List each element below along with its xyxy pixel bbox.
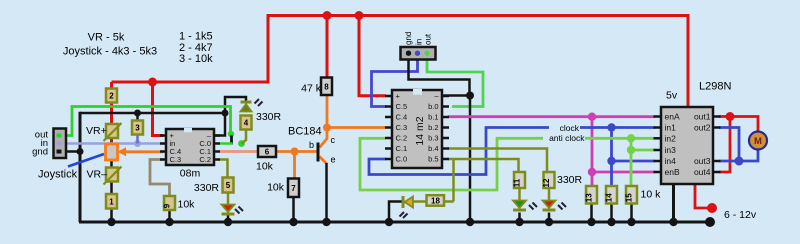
wire blue out3 to node (719, 160, 739, 163)
wire maroon stub VR+ to joystick pot (110, 136, 113, 146)
svg-text:L298N: L298N (699, 81, 731, 93)
svg-text:in2: in2 (665, 133, 677, 143)
svg-text:e: e (331, 155, 336, 165)
svg-text:in1: in1 (665, 123, 677, 133)
node bus junction x=673.5 (669, 218, 677, 226)
wire red out4 loop up to out1 node (719, 117, 730, 173)
LED D4 amber (241, 101, 252, 104)
svg-text:7: 7 (291, 184, 296, 193)
wire red L298N out1 to motor and out4 (719, 117, 758, 133)
resistor R6 10k (258, 146, 276, 157)
svg-text:5: 5 (226, 181, 231, 190)
resistor R13 10k (586, 186, 597, 204)
wire black R15 bottom to bus (630, 203, 633, 222)
resistor R10 330R horizontal (427, 195, 445, 206)
wire brown 08m C.3 to R9 (150, 160, 170, 198)
programming connector (401, 47, 436, 60)
wire red drop to 14m2 + pin (359, 16, 386, 96)
svg-text:330R: 330R (256, 111, 282, 123)
wire black stub joystick pot to VR- (110, 159, 113, 170)
wire black R9 bottom to bus (168, 209, 171, 222)
svg-text:clock: clock (560, 123, 580, 133)
svg-text:8: 8 (324, 82, 329, 91)
node black gnd junction at (470,95.5) (466, 92, 474, 100)
svg-text:c: c (331, 135, 336, 145)
wire blue to in4 pin (612, 160, 656, 163)
svg-text:out3: out3 (694, 156, 711, 166)
wiper arrow into joystick pot (124, 150, 163, 153)
wire 5v red supply rail (top) (112, 16, 689, 108)
node green junction in2 (627, 134, 635, 142)
wire black 08m minus pin up to y=113 line (214, 113, 225, 136)
node gnd junction on left rail (77, 148, 84, 155)
pin stubs 14m2 right (442, 95, 449, 98)
joystick pointer blue line (68, 154, 104, 167)
node blue junction in4 (607, 157, 615, 165)
wire magenta 14m2 b.1 to enA/enB net (448, 115, 655, 118)
svg-text:11: 11 (513, 178, 522, 187)
resistor R3 10k (132, 121, 143, 135)
node blue junction out3/motor (735, 157, 744, 166)
svg-text:18: 18 (431, 197, 440, 206)
svg-text:out4: out4 (694, 167, 711, 177)
svg-text:C.2: C.2 (199, 155, 211, 164)
svg-text:M: M (754, 136, 762, 147)
svg-text:b.4: b.4 (428, 144, 438, 153)
potentiometer VR+ (106, 124, 118, 138)
motor M1 (749, 132, 767, 150)
wire green vertical to in3 and R15 (630, 138, 633, 187)
svg-text:out1: out1 (694, 112, 711, 122)
wire black R3 top stub (136, 113, 139, 121)
node bus junction x=293.5 (289, 218, 297, 226)
node blue junction in1 (607, 123, 615, 131)
svg-text:C.4: C.4 (396, 113, 408, 122)
resistor R15 10k (626, 186, 637, 204)
wire black emitter to bus (325, 163, 328, 222)
wire black stub R1 to ground bus (110, 207, 113, 222)
wire black gnd pin to left rail (62, 150, 80, 153)
potentiometer VR- (106, 168, 118, 182)
svg-text:3: 3 (135, 124, 140, 133)
svg-text:b.3: b.3 (428, 134, 438, 143)
label clock with backing (549, 124, 580, 132)
wire orange BC184 emitter diagonal (320, 157, 328, 165)
svg-text:12: 12 (542, 178, 551, 187)
wire black bus to LED10 (389, 202, 402, 223)
svg-text:10k: 10k (256, 161, 274, 173)
wire light green anti clock net from 14m2 C.2 loop to in2/in3 (360, 138, 655, 190)
LED D12 red (543, 201, 556, 209)
svg-text:08m: 08m (180, 168, 201, 180)
svg-text:330R: 330R (194, 182, 220, 194)
svg-text:in: in (415, 39, 424, 45)
LED D11 green (513, 201, 526, 209)
rays LED D10 (400, 212, 405, 217)
svg-text:enB: enB (665, 167, 680, 177)
IC U1 PICAXE-08M (166, 129, 214, 165)
svg-text:C.2: C.2 (396, 134, 408, 143)
wire blue vertical to in4 and R14 (610, 128, 613, 188)
svg-text:in4: in4 (665, 156, 677, 166)
IC U2 PICAXE-14M2 (392, 90, 442, 168)
joystick pot (orange highlight) (106, 144, 118, 160)
wire orange R6 to base node (276, 150, 295, 153)
wire black LED5 to bus (227, 215, 230, 223)
resistor R9 10k (164, 196, 175, 210)
node bus end terminal (705, 217, 715, 227)
node bus junction x=326.5 (322, 218, 330, 226)
node bus junction x=519.5 (515, 218, 523, 226)
svg-text:6 - 12v: 6 - 12v (724, 209, 757, 221)
node bus junction x=228 (224, 218, 232, 226)
wire black R7 bottom to bus (292, 197, 295, 223)
wire black top line of joystick loop y=113 (80, 112, 225, 115)
svg-text:Joystick - 4k3 - 5k3: Joystick - 4k3 - 5k3 (63, 46, 157, 58)
node bus junction x=111.5 (107, 218, 115, 226)
svg-text:b.0: b.0 (428, 102, 438, 111)
svg-text:10k: 10k (267, 182, 285, 194)
rays LED D5 (235, 209, 240, 214)
svg-text:330R: 330R (557, 174, 583, 186)
svg-text:14 m2: 14 m2 (414, 116, 426, 145)
svg-text:3 - 10k: 3 - 10k (179, 53, 213, 65)
wire black gnd rail down to bus (469, 96, 472, 223)
wire black 14m2 minus pin to gnd node (444, 94, 471, 97)
node magenta junction enB (588, 168, 596, 176)
wire black from (225,113) up and right to LED4 (225, 97, 246, 113)
svg-text:b.5: b.5 (428, 155, 438, 164)
svg-text:2: 2 (109, 92, 114, 101)
pin stubs 14m2 left (385, 95, 392, 98)
pin stubs 08m left (160, 134, 166, 137)
svg-text:+: + (396, 92, 401, 101)
resistor R2 4k7 (106, 89, 117, 103)
svg-text:47 k: 47 k (301, 83, 322, 95)
svg-text:4: 4 (244, 119, 249, 128)
wire salmon 08m C.1 to R6 (219, 150, 258, 153)
node junction at (225,113) (222, 110, 229, 117)
rays LED D4 (255, 99, 260, 104)
resistor R7 10k (288, 179, 299, 198)
wire green to in3 pin (631, 149, 655, 152)
pin stubs L298N left (654, 115, 662, 118)
wire black LED11 to bus (518, 213, 521, 223)
svg-text:14: 14 (605, 193, 614, 202)
wire red branch to 08m + pin (153, 82, 164, 136)
node bus junction x=611.5 (607, 218, 615, 226)
svg-text:13: 13 (585, 193, 594, 202)
node green junction R4 bottom at (241,143.5) (238, 140, 245, 147)
node bus junction x=549 (545, 218, 553, 226)
node bus junction x=631.5 (627, 218, 635, 226)
svg-text:out: out (424, 33, 433, 45)
wire olive 08m C.2 to R5 (219, 160, 228, 179)
node green junction in3 (627, 146, 635, 154)
svg-text:9: 9 (163, 203, 172, 208)
rays LED D11 (529, 205, 534, 210)
wire olive R10 to vertical (444, 200, 454, 203)
node green junction at (231,134) (228, 131, 234, 137)
resistor R5 330R (223, 178, 234, 193)
wire blue clock net from 14m2 C.0 loop to in1/in4 (369, 128, 655, 175)
svg-text:VR - 5k: VR - 5k (88, 32, 125, 44)
svg-text:b: b (309, 140, 314, 150)
node bus junction x=389 (385, 218, 393, 226)
wire olive 14m2 b.4 to R12 (448, 149, 547, 174)
node orange junction base/R7 (291, 148, 299, 156)
wire black left rail of joystick loop (79, 112, 82, 222)
LED D5 red (222, 205, 235, 213)
svg-text:15: 15 (625, 193, 634, 202)
wire black R14 bottom to bus (610, 203, 613, 222)
wire olive R12 bottom to LED12 (548, 187, 551, 201)
LED D10 amber pointing left (402, 196, 405, 208)
svg-text:anti clock: anti clock (549, 133, 585, 143)
resistor R14 10k (606, 186, 617, 204)
svg-text:C.5: C.5 (396, 102, 408, 111)
resistor R1 1k5 (106, 194, 117, 209)
resistor R8 47k (321, 78, 332, 96)
svg-text:BC184: BC184 (288, 126, 322, 138)
svg-text:VR+: VR+ (86, 125, 107, 137)
svg-text:C.3: C.3 (396, 123, 408, 132)
resistor R12 330R (544, 172, 555, 188)
svg-text:Joystick: Joystick (38, 169, 78, 181)
svg-text:out2: out2 (694, 123, 711, 133)
node bus junction x=169.5 (165, 218, 173, 226)
svg-text:1: 1 (109, 197, 114, 206)
wire red 6-12v supply stub (695, 184, 708, 208)
resistor R4 330R (241, 116, 252, 130)
node orange junction collector/C.3 at (327,127.5) (323, 124, 331, 132)
wire lilac joystick in to 08m in pin (62, 142, 163, 145)
wire black stub VR- to R1 (110, 180, 113, 196)
wire magenta vertical to enB and R13 (591, 117, 594, 187)
wire orange collector node to 14m2 C.3 pin (327, 126, 386, 129)
pin stubs L298N right (713, 115, 721, 118)
svg-text:gnd: gnd (404, 32, 413, 45)
wire blue motor bottom to node (739, 149, 758, 161)
wire green joystick out to C.0 rail (62, 107, 231, 136)
wire olive LED10 to R10 (413, 200, 427, 203)
wire red VR chain top (rail to R2 and VR+) (110, 82, 113, 125)
node red junction out1/motor (726, 112, 735, 121)
svg-text:b.2: b.2 (428, 123, 438, 132)
joystick connector (54, 129, 67, 159)
svg-text:10k: 10k (178, 199, 196, 211)
wire olive R5 bottom to LED5 (227, 192, 230, 204)
wire olive R11 bottom to LED11 (518, 187, 521, 201)
wire black bar under green node (230, 136, 233, 145)
wire blue out2 to motor bottom node (719, 128, 739, 162)
node red 6-12v terminal (707, 203, 717, 213)
pin stubs 08m right (214, 134, 220, 137)
wire black LED12 to bus (548, 213, 551, 223)
svg-text:5v: 5v (666, 90, 678, 102)
svg-text:gnd: gnd (32, 147, 48, 158)
svg-text:10 k: 10 k (641, 189, 662, 201)
node red junction on rail at 14m2 supply drop (355, 11, 364, 20)
label anti clock with backing (543, 134, 585, 142)
node magenta junction enA (588, 113, 596, 121)
wire olive 14m2 b.5 to R11 and LED10 branch (448, 159, 519, 173)
svg-text:C.1: C.1 (396, 144, 408, 153)
node bus junction x=470 (466, 218, 474, 226)
svg-text:VR–: VR– (87, 169, 108, 181)
svg-text:C.3: C.3 (170, 155, 182, 164)
wire green 08m C.0 pin stub line (219, 142, 233, 145)
wire black prog connector gnd to minus rail (409, 60, 470, 96)
node lilac junction R3 bottom (134, 140, 141, 147)
wire blue R3 bottom stub (136, 134, 139, 144)
wire orange 47k R8 bottom down to collector node (326, 95, 329, 128)
wire orange stub base node down to R7 (293, 152, 296, 180)
wire magenta to enB pin (592, 171, 655, 174)
transistor Q1 BC184 base bar (317, 143, 320, 162)
node junction R3 top on black line (134, 110, 141, 117)
svg-text:in3: in3 (665, 145, 677, 155)
wire olive b.5 branch down to LED10 resistor (452, 159, 455, 202)
wire ground bus (bottom) (79, 221, 710, 224)
resistor R11 330R (514, 172, 525, 188)
svg-text:b.1: b.1 (428, 113, 438, 122)
wire olive R4 bottom bend to green node (242, 129, 247, 144)
svg-text:6: 6 (265, 148, 270, 157)
wire red drop to 47k resistor R8 (326, 16, 329, 79)
node red junction at (152,82) (148, 78, 157, 87)
svg-text:1 - 1k5: 1 - 1k5 (179, 31, 213, 43)
rays LED D12 (558, 205, 563, 210)
node bus junction x=591.5 (587, 218, 595, 226)
wire blue prog connector in to 14m2 C.5 (372, 60, 418, 107)
wire green prog connector out to 14m2 b.0 (427, 60, 483, 107)
IC U3 L298N (661, 107, 713, 184)
wire black L298N bottom to bus (672, 184, 675, 222)
svg-text:C.0: C.0 (396, 155, 408, 164)
svg-text:enA: enA (665, 112, 680, 122)
node red junction on rail at R8 drop (323, 11, 332, 20)
wire black R13 bottom to bus (590, 203, 593, 222)
wire orange collector node down to BC184 collector (320, 128, 328, 148)
wire orange base node to BC184 base (295, 150, 318, 153)
